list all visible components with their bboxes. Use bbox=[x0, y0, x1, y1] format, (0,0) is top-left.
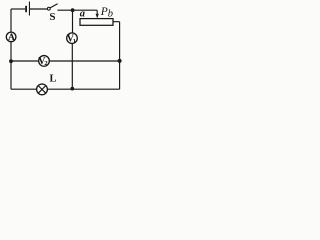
svg-text:2: 2 bbox=[44, 60, 47, 67]
svg-text:1: 1 bbox=[73, 38, 76, 45]
svg-text:L: L bbox=[50, 74, 57, 85]
svg-text:A: A bbox=[8, 33, 15, 43]
svg-text:P: P bbox=[100, 6, 108, 18]
svg-text:a: a bbox=[80, 9, 85, 20]
svg-text:S: S bbox=[49, 11, 55, 23]
svg-text:b: b bbox=[108, 9, 113, 20]
